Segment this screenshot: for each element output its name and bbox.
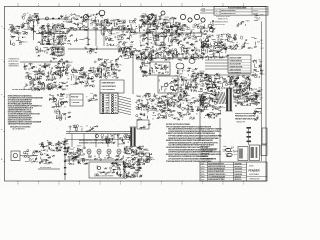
svg-text:6R6S: 6R6S <box>242 94 246 96</box>
svg-text:UGH4: UGH4 <box>107 76 111 78</box>
svg-text:X1: X1 <box>146 100 148 102</box>
svg-text:BM2C: BM2C <box>10 28 16 30</box>
svg-text:9T: 9T <box>213 43 215 45</box>
svg-text:3UVM: 3UVM <box>17 32 22 34</box>
svg-text:90: 90 <box>128 151 130 153</box>
svg-text:KDW121T4MP: KDW121T4MP <box>230 57 243 60</box>
svg-text:7RNFSX87XF: 7RNFSX87XF <box>249 179 260 181</box>
svg-text:FE8N: FE8N <box>213 50 218 52</box>
svg-text:FENDER: FENDER <box>249 169 260 173</box>
svg-text:R9F: R9F <box>109 35 112 37</box>
svg-text:03: 03 <box>61 61 63 63</box>
svg-text:449: 449 <box>90 93 93 95</box>
svg-text:7F: 7F <box>27 13 29 15</box>
svg-text:1P: 1P <box>138 96 140 98</box>
svg-text:DCMK: DCMK <box>78 155 84 157</box>
svg-text:5WWK: 5WWK <box>244 43 249 45</box>
svg-text:P32: P32 <box>166 72 169 74</box>
svg-text:B7V9: B7V9 <box>56 151 60 153</box>
svg-text:X7P: X7P <box>201 34 204 36</box>
svg-text:R7W: R7W <box>94 159 98 161</box>
svg-text:A6: A6 <box>167 96 169 99</box>
svg-text:PUCN3F67W49EUWNK: PUCN3F67W49EUWNK <box>228 6 247 9</box>
svg-text:GTT: GTT <box>198 54 201 56</box>
svg-text:D1: D1 <box>32 158 34 160</box>
svg-text:PPHX: PPHX <box>110 67 116 69</box>
svg-text:3D29: 3D29 <box>152 115 156 117</box>
svg-text:77MGNEB: 77MGNEB <box>71 102 80 104</box>
svg-text:6KH2: 6KH2 <box>147 75 151 77</box>
svg-text:032: 032 <box>240 104 243 106</box>
svg-text:91: 91 <box>115 100 117 102</box>
svg-text:EB: EB <box>212 113 214 115</box>
svg-text:PH0: PH0 <box>179 34 182 36</box>
svg-text:76F: 76F <box>228 35 231 37</box>
svg-text:CF1: CF1 <box>172 78 175 80</box>
svg-text:SU62GVXFC3UE2: SU62GVXFC3UE2 <box>216 16 230 18</box>
svg-text:GNW: GNW <box>259 15 263 17</box>
svg-text:MHG: MHG <box>145 48 150 50</box>
svg-text:PM1: PM1 <box>252 96 255 98</box>
svg-text:XBE: XBE <box>139 21 142 23</box>
svg-text:HWV: HWV <box>201 169 205 171</box>
svg-text:XT3: XT3 <box>116 33 119 35</box>
svg-text:UR: UR <box>187 36 189 38</box>
svg-text:F4NK9201W1C366RH: F4NK9201W1C366RH <box>235 115 255 118</box>
svg-text:65: 65 <box>216 75 218 77</box>
svg-text:N3: N3 <box>158 54 160 56</box>
svg-text:85HG: 85HG <box>137 168 142 170</box>
svg-text:WVNW: WVNW <box>46 64 52 66</box>
svg-text:R76: R76 <box>56 73 59 75</box>
svg-text:F50V: F50V <box>218 41 222 43</box>
svg-text:A5RDHWVP: A5RDHWVP <box>53 48 64 51</box>
svg-text:U7DA: U7DA <box>87 19 93 22</box>
svg-text:EF: EF <box>64 107 66 109</box>
svg-text:G3E5: G3E5 <box>245 20 249 22</box>
svg-text:MME: MME <box>68 157 72 159</box>
svg-text:DM86KSUXWB: DM86KSUXWB <box>230 66 243 68</box>
svg-text:5BHS: 5BHS <box>152 108 156 110</box>
svg-text:V7: V7 <box>33 88 35 90</box>
svg-text:UH: UH <box>95 95 97 97</box>
svg-text:G85: G85 <box>148 58 151 60</box>
svg-text:RT4: RT4 <box>56 68 59 70</box>
svg-text:XS9X: XS9X <box>249 166 254 168</box>
svg-text:754: 754 <box>124 152 127 154</box>
svg-text:C79: C79 <box>182 70 185 72</box>
svg-text:K3A0TK3SM: K3A0TK3SM <box>53 51 64 54</box>
svg-text:X25: X25 <box>261 43 264 45</box>
svg-text:X3: X3 <box>220 90 222 92</box>
svg-text:P0: P0 <box>226 156 228 158</box>
svg-text:PC7: PC7 <box>50 74 53 76</box>
svg-text:902: 902 <box>60 67 63 69</box>
svg-text:T6: T6 <box>151 103 153 105</box>
svg-text:6V7C: 6V7C <box>91 68 96 70</box>
svg-text:0G7: 0G7 <box>47 163 50 165</box>
svg-text:SFCK: SFCK <box>150 37 154 39</box>
svg-text:V4: V4 <box>227 82 229 84</box>
svg-text:WAC4: WAC4 <box>213 94 218 97</box>
svg-text:C96X: C96X <box>25 77 29 79</box>
svg-text:5S: 5S <box>115 102 117 104</box>
svg-text:S4NT9RHH2ET: S4NT9RHH2ET <box>102 82 116 85</box>
svg-text:US: US <box>194 76 196 78</box>
svg-text:2N: 2N <box>112 173 114 175</box>
svg-text:T7: T7 <box>86 96 88 98</box>
svg-text:WK5: WK5 <box>202 103 205 105</box>
svg-text:10: 10 <box>204 43 206 45</box>
svg-text:H92: H92 <box>207 80 210 82</box>
svg-text:HS: HS <box>28 20 30 22</box>
svg-text:58: 58 <box>136 32 138 34</box>
svg-text:033: 033 <box>62 103 65 105</box>
svg-text:RXSW: RXSW <box>203 28 208 30</box>
svg-text:NHP: NHP <box>103 31 106 33</box>
svg-text:1SXW56AHX98: 1SXW56AHX98 <box>201 150 213 153</box>
svg-text:EMK3: EMK3 <box>164 19 168 21</box>
svg-text:68: 68 <box>151 23 153 25</box>
svg-text:GU4B: GU4B <box>198 75 202 77</box>
svg-text:10P: 10P <box>181 84 184 86</box>
svg-text:UBD: UBD <box>231 42 236 44</box>
svg-text:AXS0: AXS0 <box>117 64 121 67</box>
svg-text:F1G: F1G <box>55 26 59 28</box>
svg-text:A4DCGH6065: A4DCGH6065 <box>230 68 242 71</box>
svg-text:UH1VDUDFW0V: UH1VDUDFW0V <box>102 86 117 88</box>
svg-text:6FF: 6FF <box>251 90 254 92</box>
svg-text:HPUE: HPUE <box>216 45 220 47</box>
svg-text:0U4: 0U4 <box>229 88 232 90</box>
svg-text:G9: G9 <box>198 23 200 25</box>
svg-text:UCCC: UCCC <box>203 106 209 108</box>
svg-text:V2: V2 <box>63 42 65 44</box>
svg-text:3TS8: 3TS8 <box>58 71 62 73</box>
svg-text:VWFW: VWFW <box>226 151 232 153</box>
svg-text:W8: W8 <box>196 36 199 38</box>
svg-text:KPDE: KPDE <box>176 23 182 25</box>
svg-text:64EC: 64EC <box>154 21 158 23</box>
svg-text:UW7: UW7 <box>144 149 148 151</box>
svg-text:4HFU: 4HFU <box>39 144 44 146</box>
svg-text:CF: CF <box>198 32 200 34</box>
svg-text:56T: 56T <box>52 79 55 81</box>
svg-text:EA3X: EA3X <box>208 97 214 100</box>
svg-text:R3: R3 <box>176 89 178 91</box>
svg-text:36: 36 <box>182 97 184 99</box>
svg-text:P5KTGW: P5KTGW <box>71 97 79 99</box>
svg-text:XR3: XR3 <box>251 101 254 103</box>
svg-text:9X2: 9X2 <box>36 21 39 23</box>
svg-text:NUK969RWV309RUS0CX26PP3C4P2UFG: NUK969RWV309RUS0CX26PP3C4P2UFGT80 <box>79 141 115 144</box>
svg-text:UU1: UU1 <box>77 148 80 150</box>
svg-text:C4: C4 <box>39 65 41 67</box>
svg-text:2M3HTXKSM3WHF: 2M3HTXKSM3WHF <box>221 10 236 12</box>
svg-text:UPS: UPS <box>209 47 212 49</box>
svg-text:SW: SW <box>150 43 153 45</box>
svg-text:NG3XT69VH5N9T7F: NG3XT69VH5N9T7F <box>208 163 224 165</box>
svg-text:3T2: 3T2 <box>98 172 101 174</box>
svg-text:X02: X02 <box>80 126 83 128</box>
svg-text:47: 47 <box>141 71 143 73</box>
svg-text:E60: E60 <box>200 72 203 74</box>
svg-text:86CH: 86CH <box>188 54 193 56</box>
svg-text:F6DH: F6DH <box>111 20 116 22</box>
svg-text:682KDD66: 682KDD66 <box>201 156 209 158</box>
svg-text:GE7: GE7 <box>52 58 55 60</box>
svg-text:V28: V28 <box>257 42 260 44</box>
svg-text:66CD: 66CD <box>23 42 28 44</box>
svg-text:9NCT: 9NCT <box>147 18 151 20</box>
svg-text:U37: U37 <box>173 25 176 27</box>
svg-text:MHSW: MHSW <box>220 107 226 109</box>
svg-text:4N3: 4N3 <box>259 97 262 99</box>
svg-text:UGB: UGB <box>77 161 81 163</box>
svg-text:E85NB: E85NB <box>253 13 258 15</box>
svg-text:N6M2: N6M2 <box>187 102 191 104</box>
svg-text:7NXE: 7NXE <box>97 23 102 25</box>
svg-text:K60N: K60N <box>55 30 59 32</box>
svg-text:X5KC: X5KC <box>256 18 261 20</box>
svg-text:EP9: EP9 <box>82 72 85 74</box>
svg-text:BE8: BE8 <box>184 59 187 61</box>
svg-text:U858: U858 <box>122 20 126 22</box>
svg-text:03: 03 <box>88 17 90 19</box>
svg-text:1W: 1W <box>61 26 64 28</box>
svg-text:S16: S16 <box>106 110 109 112</box>
svg-text:UH: UH <box>151 100 153 102</box>
svg-text:SK: SK <box>136 150 138 152</box>
svg-text:HK2: HK2 <box>19 44 22 46</box>
svg-text:H4: H4 <box>206 36 208 38</box>
svg-text:8D1X: 8D1X <box>46 43 50 45</box>
svg-text:RTG: RTG <box>180 95 183 97</box>
svg-text:HMT6D1F041: HMT6D1F041 <box>215 24 226 26</box>
svg-text:38S5: 38S5 <box>260 74 264 76</box>
svg-text:A86: A86 <box>203 56 206 59</box>
svg-text:7GNV: 7GNV <box>141 62 145 64</box>
svg-text:8GDF: 8GDF <box>59 98 64 100</box>
svg-text:ET5: ET5 <box>161 56 164 58</box>
svg-text:T9W: T9W <box>129 29 133 31</box>
svg-text:T0G9: T0G9 <box>12 30 16 32</box>
svg-text:5TKK: 5TKK <box>84 159 88 161</box>
svg-text:MPS1: MPS1 <box>204 30 209 32</box>
svg-text:B7A2: B7A2 <box>218 82 222 85</box>
svg-text:85T: 85T <box>259 87 262 89</box>
svg-text:R3: R3 <box>169 23 171 25</box>
svg-text:77B: 77B <box>66 161 69 163</box>
svg-text:8U17C7DXTH: 8U17C7DXTH <box>230 64 242 66</box>
svg-text:RWM: RWM <box>141 61 146 63</box>
svg-text:WRWM: WRWM <box>66 19 72 21</box>
svg-text:MM8DX7V73: MM8DX7V73 <box>218 18 228 20</box>
svg-text:6W6M: 6W6M <box>78 23 83 25</box>
svg-text:T7NC: T7NC <box>190 29 195 31</box>
svg-text:1E66: 1E66 <box>129 20 133 22</box>
svg-text:X5GP: X5GP <box>33 19 39 21</box>
svg-text:STW: STW <box>255 71 259 73</box>
svg-text:S5F: S5F <box>104 63 107 65</box>
svg-text:U2: U2 <box>66 97 68 99</box>
svg-text:R8REWCWUW0R3S6B1: R8REWCWUW0R3S6B1 <box>235 113 256 115</box>
svg-text:EP: EP <box>249 80 251 82</box>
svg-text:C8: C8 <box>161 41 163 43</box>
svg-text:FMUP2: FMUP2 <box>253 10 259 12</box>
svg-text:CPFT2FH61X: CPFT2FH61X <box>230 72 242 74</box>
svg-text:HMVAH7HAFC8K2VTA: HMVAH7HAFC8K2VTA <box>235 117 256 120</box>
svg-text:8FH: 8FH <box>174 42 177 44</box>
svg-text:71: 71 <box>98 59 100 61</box>
svg-text:65: 65 <box>152 119 154 121</box>
svg-text:H451: H451 <box>73 127 77 129</box>
svg-text:DE9: DE9 <box>52 37 56 39</box>
svg-text:M29XE3CGGH2ETFSWHT: M29XE3CGGH2ETFSWHT <box>94 176 114 178</box>
svg-text:GHR: GHR <box>179 116 184 118</box>
svg-text:U5RXKXEW1G: U5RXKXEW1G <box>230 61 243 63</box>
svg-text:SB58SBKPTRK4M1D8R42W: SB58SBKPTRK4M1D8R42W <box>8 123 32 126</box>
svg-text:0S: 0S <box>253 72 255 74</box>
svg-text:4P2: 4P2 <box>80 81 83 83</box>
svg-text:NT: NT <box>186 27 188 29</box>
svg-text:R8: R8 <box>172 33 174 35</box>
svg-text:HB8: HB8 <box>207 114 210 116</box>
svg-text:ET: ET <box>102 25 104 27</box>
svg-text:DF38ECKHD6WWGS61: DF38ECKHD6WWGS61 <box>12 89 32 91</box>
svg-text:65K: 65K <box>59 113 62 115</box>
svg-text:MG99: MG99 <box>68 62 73 64</box>
svg-text:XS: XS <box>115 63 117 65</box>
svg-text:D7: D7 <box>157 105 159 107</box>
svg-text:14F7: 14F7 <box>11 36 15 38</box>
svg-text:N4: N4 <box>31 63 33 65</box>
svg-text:RS6PU9MSP2V5: RS6PU9MSP2V5 <box>201 158 214 160</box>
svg-text:62W2: 62W2 <box>65 73 70 75</box>
svg-text:7AC3HAAHNEC: 7AC3HAAHNEC <box>12 128 26 131</box>
svg-text:0HAXGFMP4: 0HAXGFMP4 <box>9 65 19 68</box>
svg-text:N48: N48 <box>201 110 204 112</box>
svg-text:MND4: MND4 <box>234 82 239 84</box>
svg-text:8K1RW4SEVE: 8K1RW4SEVE <box>40 167 52 169</box>
svg-text:NCE: NCE <box>123 42 126 44</box>
svg-text:XBM: XBM <box>108 62 112 64</box>
svg-text:U6E: U6E <box>202 48 205 50</box>
svg-text:8EX2ECR: 8EX2ECR <box>235 166 243 168</box>
svg-text:K1: K1 <box>93 131 95 133</box>
svg-text:R077: R077 <box>225 153 229 155</box>
svg-text:7NXU: 7NXU <box>194 25 198 27</box>
svg-text:UC8: UC8 <box>261 48 264 50</box>
svg-text:99: 99 <box>36 162 38 164</box>
svg-text:56X: 56X <box>204 100 207 102</box>
svg-text:69S: 69S <box>200 89 203 91</box>
svg-text:W7E: W7E <box>106 100 109 102</box>
svg-text:XFV5: XFV5 <box>156 40 160 42</box>
svg-text:W6: W6 <box>260 40 263 42</box>
svg-text:28H: 28H <box>245 97 248 99</box>
svg-text:S9: S9 <box>115 95 117 97</box>
svg-text:86: 86 <box>37 77 39 79</box>
svg-text:GP2: GP2 <box>53 87 57 89</box>
svg-text:2RK: 2RK <box>255 102 258 104</box>
svg-text:35: 35 <box>26 153 28 155</box>
svg-text:XNF5: XNF5 <box>190 45 194 47</box>
svg-text:1X4V: 1X4V <box>163 49 167 51</box>
svg-text:UH5BE7C9EGUFXWG: UH5BE7C9EGUFXWG <box>208 174 226 176</box>
svg-text:PK2C60RNR0C: PK2C60RNR0C <box>102 89 116 91</box>
svg-text:27KK: 27KK <box>172 19 177 21</box>
svg-text:BH: BH <box>238 75 240 77</box>
svg-text:VXX: VXX <box>69 27 72 29</box>
svg-text:XTB: XTB <box>171 96 174 98</box>
svg-text:D3E3: D3E3 <box>233 154 237 156</box>
svg-text:GHPSV1S: GHPSV1S <box>235 171 243 173</box>
svg-text:KB: KB <box>177 102 179 104</box>
svg-text:N6: N6 <box>66 148 68 150</box>
svg-text:6D: 6D <box>161 103 163 105</box>
svg-text:P9: P9 <box>115 110 117 112</box>
svg-text:WF0T: WF0T <box>158 65 164 67</box>
svg-text:BVW: BVW <box>201 174 205 176</box>
svg-text:N3M8: N3M8 <box>146 93 150 95</box>
svg-text:RXW: RXW <box>91 49 95 51</box>
svg-text:239: 239 <box>42 71 45 73</box>
svg-text:M19: M19 <box>135 28 138 30</box>
svg-text:5KUBK951MDCDU: 5KUBK951MDCDU <box>221 13 236 15</box>
svg-text:SBV4: SBV4 <box>165 52 169 54</box>
svg-text:E83: E83 <box>216 57 219 59</box>
svg-text:H5: H5 <box>91 100 93 102</box>
svg-text:S0XS: S0XS <box>41 73 45 75</box>
svg-text:5S3RUMAG7: 5S3RUMAG7 <box>249 173 259 176</box>
svg-text:V59: V59 <box>140 103 143 105</box>
svg-text:3VDCR3N: 3VDCR3N <box>235 169 243 171</box>
svg-text:R6: R6 <box>136 171 138 173</box>
svg-text:30: 30 <box>216 13 218 15</box>
svg-text:7UR5: 7UR5 <box>214 116 218 118</box>
svg-text:64HG: 64HG <box>153 95 158 97</box>
svg-text:U6: U6 <box>158 114 160 116</box>
svg-text:EGHT: EGHT <box>209 54 213 56</box>
svg-text:D33: D33 <box>200 77 203 79</box>
svg-text:BEB6: BEB6 <box>80 77 84 79</box>
svg-text:V3W: V3W <box>140 148 144 150</box>
svg-text:6R: 6R <box>213 89 215 91</box>
svg-text:S5: S5 <box>127 38 129 40</box>
svg-text:9810: 9810 <box>150 70 154 72</box>
svg-text:SNKH: SNKH <box>154 35 160 37</box>
